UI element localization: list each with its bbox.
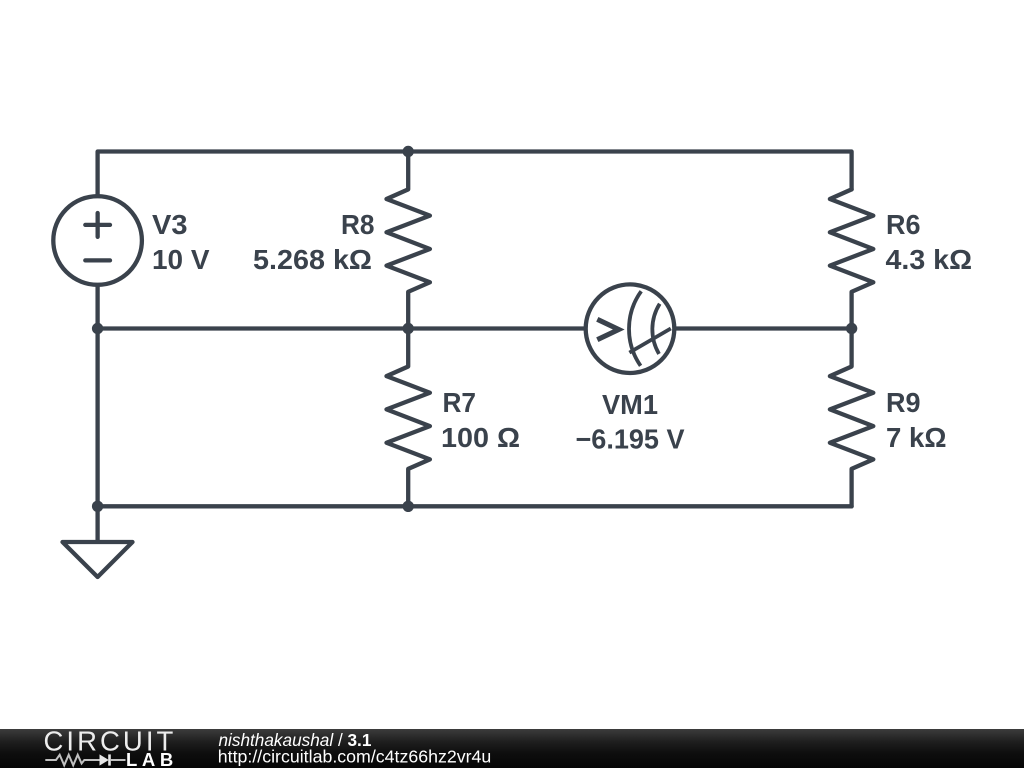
resistor R6 (830, 189, 873, 328)
ground triangle (63, 542, 133, 577)
svg-text:7 kΩ: 7 kΩ (886, 422, 947, 453)
V3 plus sign (85, 213, 110, 237)
node dot mid R6/R9 (846, 323, 857, 334)
node dot bottom left (92, 501, 103, 512)
VM1 gauge arc large (629, 291, 641, 366)
label VM1 value (576, 389, 686, 455)
svg-text:5.268 kΩ: 5.268 kΩ (253, 244, 372, 275)
resistor R7 (387, 329, 430, 507)
svg-text:V3: V3 (152, 209, 188, 240)
label R9 value (886, 387, 947, 453)
wire left column mid-to-bottom plus ground stem (95, 329, 99, 543)
voltmeter VM1 circle (586, 284, 675, 373)
node dot mid R8/R7 (403, 323, 414, 334)
wire bottom rail (98, 504, 852, 508)
VM1 gauge arc small (652, 304, 659, 354)
wire top rail with corners down to V3 top and R6 top lead (98, 152, 852, 198)
voltage source V3 circle (53, 196, 142, 285)
node dot top R8 (403, 146, 414, 157)
svg-text:10 V: 10 V (152, 244, 210, 275)
VM1 needle (629, 329, 670, 353)
svg-text:R6: R6 (886, 209, 921, 240)
svg-text:100 Ω: 100 Ω (441, 422, 520, 453)
node dot mid left (92, 323, 103, 334)
label R8 value (253, 209, 375, 275)
node dot bottom R7 (403, 501, 414, 512)
svg-text:−6.195 V: −6.195 V (576, 423, 686, 454)
wire middle rail (98, 326, 852, 330)
V3 minus sign (85, 258, 110, 262)
resistor R9 (830, 329, 873, 507)
logo diode (100, 754, 109, 765)
svg-text:LAB: LAB (126, 749, 178, 768)
label R6 value (886, 209, 973, 275)
logo resistor squiggle (45, 755, 99, 766)
resistor R8 (387, 152, 430, 329)
wire V3 bottom to middle rail (95, 286, 99, 329)
svg-text:http://circuitlab.com/c4tz66hz: http://circuitlab.com/c4tz66hz2vr4u (218, 747, 492, 767)
svg-text:4.3 kΩ: 4.3 kΩ (886, 244, 973, 275)
svg-text:R8: R8 (341, 209, 375, 240)
label R7 value (441, 387, 520, 453)
svg-text:R7: R7 (443, 387, 477, 418)
svg-text:VM1: VM1 (602, 389, 658, 420)
VM1 greater-than mark (597, 319, 618, 339)
label V3 value (152, 209, 210, 275)
svg-text:R9: R9 (886, 387, 921, 418)
